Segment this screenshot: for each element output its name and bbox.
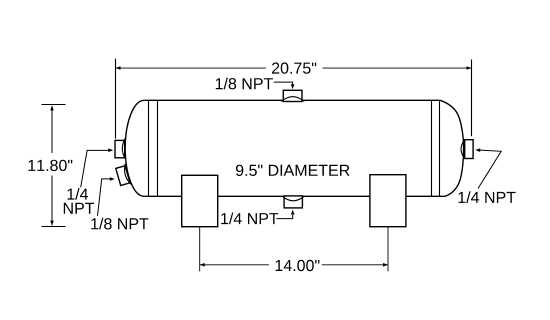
weld seam right 2: [439, 100, 441, 196]
leader 1/4 NPT bottom: [276, 215, 292, 219]
tank top line: [144, 99, 440, 101]
leader 1/8 NPT top: [274, 82, 293, 85]
dim 20.75 extension line left: [115, 59, 117, 139]
leader arrow 1/4 NPT left: [108, 148, 113, 152]
mounting foot left: [182, 175, 218, 226]
weld seam left 1: [148, 100, 150, 196]
dim 20.75 line: [116, 67, 472, 69]
dim text 20.75: [272, 62, 316, 73]
dim 14.00 arrow right: [383, 263, 388, 267]
dim 20.75 arrow left: [116, 66, 121, 70]
dim 14.00 arrow left: [200, 263, 205, 267]
dim 11.80 arrow bottom: [50, 221, 54, 226]
dim 11.80 line: [51, 106, 53, 226]
leader 1/8 NPT left lower: [98, 179, 111, 216]
label 1/4 left line1: [68, 188, 89, 200]
port 1/4 NPT left side: boss arc: [122, 138, 125, 159]
dim 11.80 tick bottom: [42, 226, 66, 228]
leader 1/4 NPT left: [81, 150, 109, 187]
leader 1/4 NPT right: [478, 150, 501, 188]
leader arrow 1/4 NPT bottom: [291, 210, 295, 215]
dim 20.75 arrow right: [467, 66, 472, 70]
label 9.5 DIAMETER: [236, 165, 350, 176]
port 1/4 NPT right side: fitting rect: [465, 140, 473, 159]
port 1/8 NPT left lower: fitting rect (tilted): [115, 164, 131, 187]
port 1/4 NPT left side: fitting rect: [115, 140, 125, 157]
tank right dome: [440, 100, 464, 196]
port 1/4 NPT right side: boss arc: [461, 140, 464, 158]
label 1/8 NPT top: [216, 78, 273, 90]
label NPT left line2: [64, 203, 94, 214]
label 1/8 NPT left lower: [91, 218, 148, 230]
port 1/8 NPT top: boss arc: [281, 97, 304, 102]
tank bottom line: [144, 195, 444, 197]
weld seam right 1: [431, 100, 433, 196]
dim 11.80 arrow top: [50, 106, 54, 111]
dim 11.80 tick top: [42, 104, 66, 106]
leader arrow 1/8 NPT left lower: [110, 177, 115, 181]
dim text 14.00: [276, 260, 320, 271]
dim 20.75 extension line right: [471, 60, 473, 137]
foot centerline right: [387, 227, 389, 272]
port 1/4 NPT bottom: boss arc: [282, 196, 304, 201]
label 1/4 NPT right: [459, 191, 516, 203]
label 1/4 NPT bottom: [221, 213, 278, 225]
weld seam left 2: [157, 100, 159, 196]
leader arrow 1/8 NPT top: [291, 84, 295, 89]
port 1/8 NPT top: fitting rect: [283, 90, 302, 101]
foot centerline left: [199, 227, 201, 272]
port 1/4 NPT bottom: fitting rect: [284, 196, 302, 208]
tank left dome: [125, 100, 144, 196]
dim text 11.80: [29, 160, 73, 171]
dim 14.00 line: [200, 264, 388, 266]
leader arrow 1/4 NPT right: [475, 148, 480, 152]
mounting foot right: [370, 175, 406, 227]
